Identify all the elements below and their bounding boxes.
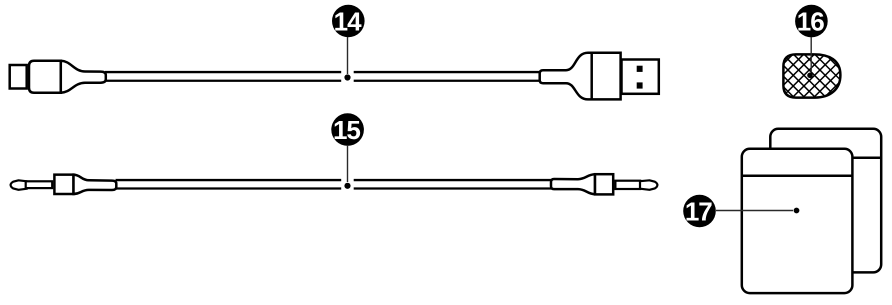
leader line for 14 [347,37,349,74]
wire: cable 14 right segment top [354,71,541,73]
leader dot on cable 14 [344,74,350,80]
aux cable item 15: right plug tip [640,180,657,190]
leader dot on cable 15 [344,183,350,189]
leader dot on card 17 [794,208,800,214]
foam windscreen item 16 crosshatch [725,42,891,112]
aux cable item 15: right plug body [595,174,613,194]
aux cable item 15: left plug body [54,175,73,194]
callout badge 17 [683,195,716,228]
leader dot on foam 16 [807,73,813,79]
foam windscreen item 16 outline [783,54,840,97]
documentation card front header line [742,175,853,178]
documentation card front (item 17) [742,149,853,293]
callout badge 16 [795,5,828,38]
callout badge 14 [332,5,365,38]
documentation card back (item 17) [770,129,881,273]
wire: cable 15 left segment bottom [116,187,342,189]
svg-text:15: 15 [333,115,360,145]
svg-text:16: 16 [797,7,824,37]
wire: cable 14 right segment bottom [354,80,541,82]
usb cable item 14: USB-A metal plug [622,60,659,94]
wire: cable 15 right segment bottom [354,187,551,189]
leader line for 16 [810,37,812,72]
wire: cable 15 right segment top [354,179,551,181]
usb cable item 14: USB-C strain relief [61,61,106,93]
usb cable item 14: USB-C plug tip [10,65,27,89]
usb cable item 14: USB-A body divider line [590,53,593,100]
usb cable item 14: USB-A contact hole lower [637,82,643,88]
wire: cable 14 left segment bottom [105,80,341,82]
aux cable item 15: left 3.5mm plug tip [11,180,27,190]
aux cable item 15: left strain relief [74,175,117,194]
svg-text:14: 14 [334,7,362,37]
aux cable item 15: left plug shaft [26,181,53,188]
usb cable item 14: USB-A strain relief and body [540,53,621,100]
documentation card back header line [770,157,881,160]
usb cable item 14: USB-C plug body [29,61,61,93]
aux cable item 15: right strain relief [551,174,595,194]
leader line for 17 [716,210,793,212]
leader line for 15 [347,146,349,182]
callout badge 15 [331,113,364,146]
aux cable item 15: right plug shaft [615,181,640,189]
svg-text:17: 17 [685,197,712,227]
wire: cable 15 left segment top [116,179,342,181]
wire: cable 14 left segment top [105,71,341,73]
usb cable item 14: USB-A contact hole upper [637,66,643,72]
